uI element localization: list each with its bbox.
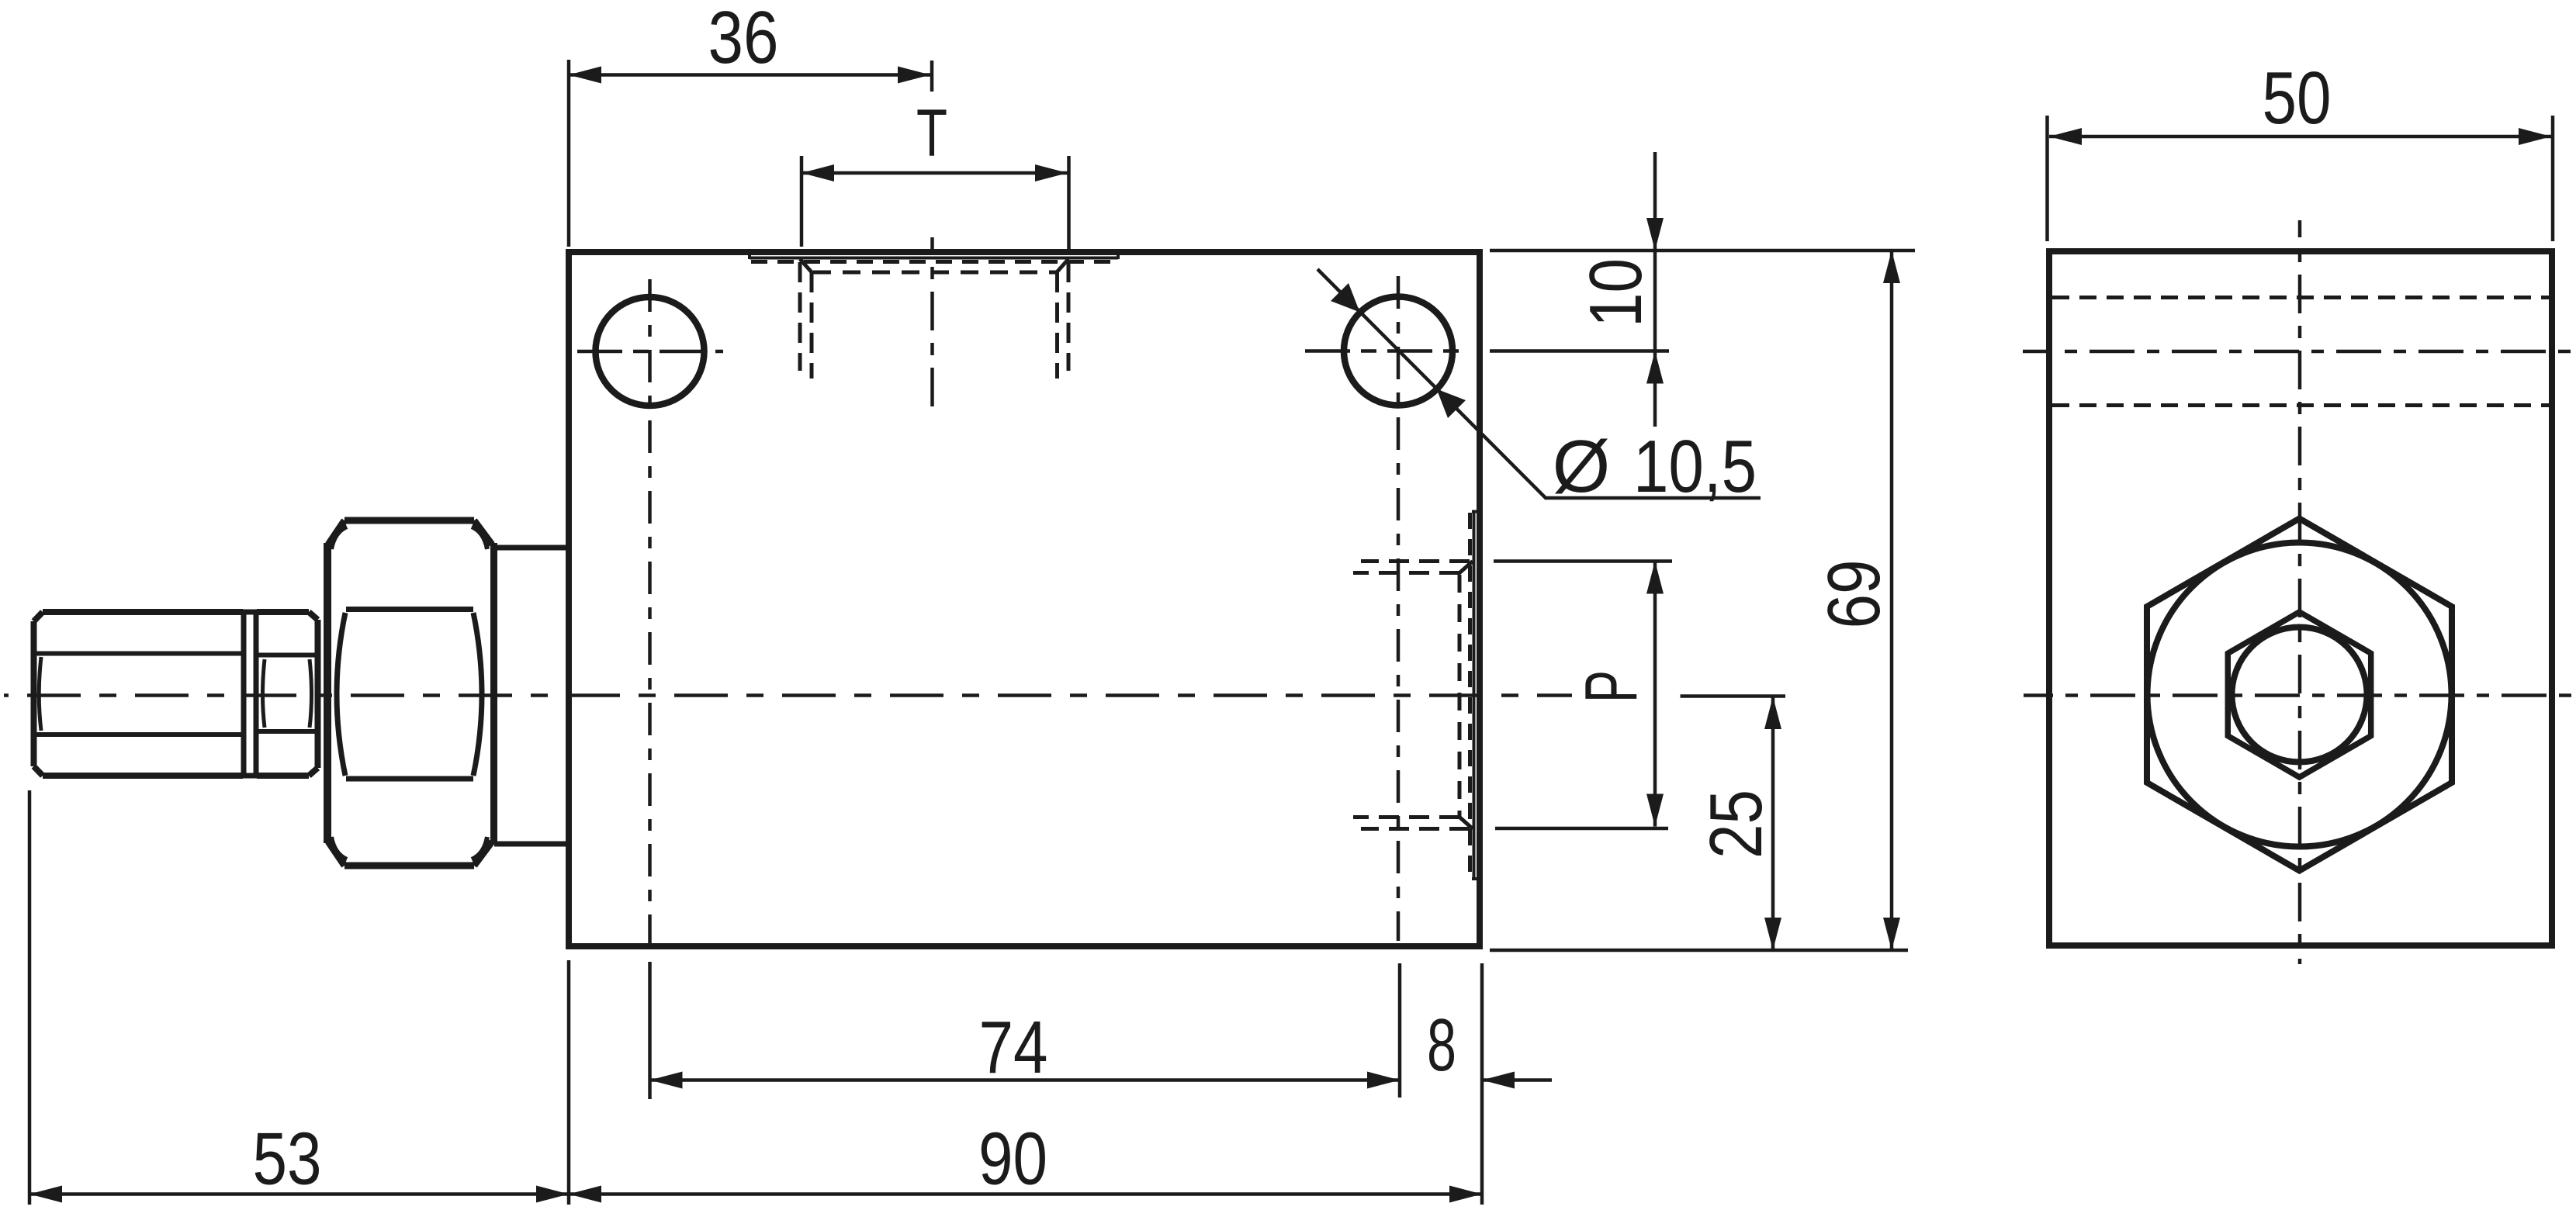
hole center extension bbox=[1490, 349, 1669, 353]
svg-text:50: 50 bbox=[2263, 57, 2332, 140]
side view big circle bbox=[2148, 543, 2452, 847]
T port hidden line row outer bbox=[751, 260, 1115, 264]
P port drill line top bbox=[1353, 571, 1459, 575]
dimension 50 extension left bbox=[2045, 116, 2049, 241]
front view block outline bbox=[569, 252, 1480, 946]
small hex flat bottom bbox=[258, 729, 316, 734]
dimension 10 arrow up bbox=[1646, 351, 1664, 384]
dimension 25 extension top bbox=[1681, 694, 1786, 698]
P port counterbore line bbox=[1472, 512, 1477, 880]
big nut corner arc top-right bbox=[472, 527, 487, 549]
lock washer bbox=[243, 612, 257, 776]
P port chamfer bottom bbox=[1459, 817, 1473, 829]
hex rod flat bottom bbox=[36, 732, 243, 737]
small hex flat top bbox=[258, 653, 316, 658]
big nut corner arc top-left bbox=[331, 527, 347, 549]
T port vertical centerline bbox=[930, 237, 934, 417]
T port width arrow left bbox=[802, 164, 834, 181]
bolt hole right horizontal centerline bbox=[1305, 349, 1466, 353]
small hex chamfer arc right bbox=[310, 659, 312, 728]
big nut flat top bbox=[346, 607, 473, 612]
big nut face arc left bbox=[337, 613, 345, 776]
dimension 74 extension right bbox=[1398, 963, 1402, 1098]
svg-text:36: 36 bbox=[708, 0, 779, 79]
bolt hole left bbox=[596, 297, 705, 406]
dimension 53 arrow left bbox=[29, 1186, 62, 1203]
side view small circle bbox=[2232, 627, 2367, 762]
svg-text:53: 53 bbox=[253, 1118, 322, 1201]
side view hole centerline bbox=[2023, 350, 2574, 354]
dimension P arrow up bbox=[1646, 562, 1664, 594]
dimension P extension bottom bbox=[1495, 827, 1668, 831]
dimension 25 line bbox=[1771, 697, 1775, 950]
T port drill line right bbox=[1055, 272, 1059, 379]
T port width dimension extension right bbox=[1067, 156, 1071, 250]
hex rod left chamfer arc bbox=[39, 657, 41, 731]
dimension 8 arrow bbox=[1482, 1072, 1515, 1089]
T port chamfer right bbox=[1056, 259, 1068, 273]
dimension P extension top bbox=[1494, 559, 1672, 563]
side view block outline bbox=[2049, 251, 2552, 946]
dimension 36 arrow right bbox=[898, 67, 930, 84]
T port chamfer left bbox=[800, 259, 812, 273]
svg-text:T: T bbox=[916, 96, 947, 171]
dimension 69 line bbox=[1890, 251, 1894, 950]
P port drill line bottom bbox=[1353, 815, 1459, 819]
dimension 74 arrow left bbox=[650, 1072, 683, 1089]
dimension 69 arrow down bbox=[1883, 918, 1900, 950]
block bottom extension bbox=[1490, 949, 1908, 952]
dimension 36 arrow left bbox=[569, 67, 601, 84]
spacer top bbox=[494, 545, 569, 551]
dimension 90 arrow left bbox=[569, 1186, 601, 1203]
dimension P arrow down bbox=[1646, 794, 1664, 827]
side view horizontal centerline bbox=[2024, 693, 2573, 697]
main horizontal centerline bbox=[4, 693, 1572, 697]
big nut corner arc bottom-left bbox=[331, 837, 347, 859]
spacer bottom bbox=[494, 842, 569, 847]
hex rod flat top bbox=[36, 652, 243, 656]
svg-text:25: 25 bbox=[1695, 790, 1778, 859]
dimension 50 extension right bbox=[2551, 116, 2555, 241]
dimension 25 arrow up bbox=[1764, 697, 1781, 729]
bolt hole right bbox=[1344, 297, 1452, 406]
P port hidden line col outer bbox=[1468, 513, 1472, 877]
small hex outline bbox=[257, 612, 318, 776]
T port drill line left bbox=[810, 272, 814, 379]
side view hidden hole line bottom bbox=[2052, 403, 2549, 407]
dimension 50 line bbox=[2049, 135, 2551, 139]
svg-text:74: 74 bbox=[979, 1006, 1048, 1089]
dimension 50 arrow left bbox=[2049, 128, 2082, 145]
dimension 10 arrow down bbox=[1646, 218, 1664, 251]
big nut left face bbox=[324, 543, 331, 843]
svg-text:Ø: Ø bbox=[1553, 425, 1611, 508]
bolt hole left vertical centerline bbox=[648, 279, 652, 959]
T port width arrow right bbox=[1035, 164, 1068, 181]
dimension 90 extension left bbox=[567, 960, 571, 1205]
dimension 25 arrow down bbox=[1764, 918, 1781, 950]
svg-text:P: P bbox=[1570, 670, 1653, 703]
bolt hole left horizontal centerline bbox=[577, 350, 723, 354]
dimension P line bbox=[1653, 562, 1657, 827]
svg-text:10: 10 bbox=[1574, 258, 1657, 327]
dimension 50 arrow right bbox=[2519, 128, 2551, 145]
T port width dimension extension left bbox=[800, 156, 804, 247]
big nut flat bottom bbox=[346, 776, 473, 782]
T port hidden line row inner bbox=[813, 271, 1056, 275]
dimension 69 arrow up bbox=[1883, 251, 1900, 283]
side view hidden hole line top bbox=[2052, 296, 2549, 299]
dimension 10 line bbox=[1653, 152, 1657, 427]
T port thread line left bbox=[798, 262, 802, 371]
dimension 74 line bbox=[650, 1078, 1401, 1082]
dimension 36 line bbox=[569, 73, 930, 77]
dimension 8 tail line bbox=[1482, 1078, 1552, 1082]
diameter leader line bbox=[1317, 269, 1761, 498]
P port thread line bottom bbox=[1361, 827, 1470, 831]
dimension 8 extension right bbox=[1480, 963, 1484, 1205]
dimension 36 tick right bbox=[930, 60, 934, 92]
dimension 53 arrow right bbox=[536, 1186, 569, 1203]
dimension 74 extension left bbox=[648, 962, 652, 1099]
diameter leader arrow lower bbox=[1437, 389, 1466, 419]
side view big hexagon bbox=[2147, 519, 2452, 871]
svg-text:8: 8 bbox=[1427, 1004, 1456, 1087]
svg-text:69: 69 bbox=[1813, 560, 1896, 629]
dimension 36 extension line left bbox=[567, 60, 571, 247]
T port thread line right bbox=[1067, 262, 1071, 371]
T port width dimension line bbox=[802, 171, 1068, 175]
big nut corner arc bottom-right bbox=[472, 837, 487, 859]
small hex chamfer arc left bbox=[263, 659, 265, 728]
side view vertical centerline bbox=[2298, 220, 2302, 964]
P port chamfer top bbox=[1459, 562, 1473, 574]
P port thread line top bbox=[1361, 559, 1470, 563]
dimension 74 arrow right bbox=[1367, 1072, 1400, 1089]
diameter leader arrow upper bbox=[1331, 283, 1360, 313]
big nut right face bbox=[490, 543, 497, 843]
hex rod outline bbox=[34, 612, 244, 776]
dimension 10 top extension bbox=[1490, 249, 1915, 253]
big nut face arc right bbox=[473, 613, 482, 776]
svg-text:90: 90 bbox=[978, 1118, 1047, 1201]
bolt hole right vertical centerline bbox=[1397, 276, 1401, 941]
dimension 90 arrow right bbox=[1449, 1186, 1482, 1203]
big nut outline bbox=[328, 520, 492, 866]
dimension 53 extension left bbox=[28, 790, 32, 1205]
svg-text:10,5: 10,5 bbox=[1633, 425, 1757, 508]
side view small hexagon bbox=[2228, 612, 2370, 777]
P port hidden line col inner bbox=[1458, 575, 1462, 818]
dimension 53-90 line bbox=[29, 1192, 1482, 1196]
T port counterbore line bbox=[750, 254, 1118, 259]
